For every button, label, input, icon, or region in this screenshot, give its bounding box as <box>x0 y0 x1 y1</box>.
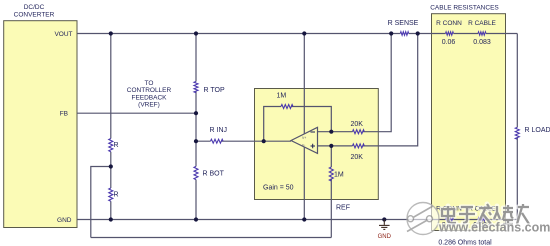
junction VOUT sense before RSENSE <box>389 31 393 35</box>
svg-text:0.286 Ohms total: 0.286 Ohms total <box>438 240 492 246</box>
svg-text:V-: V- <box>302 144 305 148</box>
junction GND-symbol <box>382 217 386 221</box>
svg-text:(VREF): (VREF) <box>138 102 160 109</box>
svg-text:CABLE RESISTANCES: CABLE RESISTANCES <box>430 4 499 11</box>
svg-text:R: R <box>114 192 119 199</box>
op-amp plus input mark <box>311 144 316 148</box>
junction FB node <box>194 111 198 115</box>
resistor 20K top <box>353 130 365 134</box>
svg-text:R CONN: R CONN <box>436 20 462 27</box>
resistor R lower divider <box>109 188 113 201</box>
svg-text:CONVERTER: CONVERTER <box>14 11 55 18</box>
wire REF 1M branch <box>330 146 332 238</box>
svg-text:R: R <box>114 142 119 149</box>
svg-text:R TOP: R TOP <box>204 87 225 94</box>
svg-text:DC/DC: DC/DC <box>24 4 45 11</box>
junction VOUT-supply <box>302 31 306 35</box>
resistor 1M feedback <box>281 105 293 109</box>
wire load branch <box>516 34 518 220</box>
wire feedback node vertical <box>195 34 197 220</box>
svg-text:VOUT: VOUT <box>54 31 72 38</box>
label TO CONTROLLER FEEDBACK (VREF) <box>127 80 172 108</box>
svg-text:0.06: 0.06 <box>442 39 456 46</box>
svg-text:Gain = 50: Gain = 50 <box>263 185 294 192</box>
wire op-amp V+ supply <box>303 34 305 135</box>
svg-text:FB: FB <box>60 111 68 118</box>
junction VOUT sense after RSENSE <box>416 31 420 35</box>
svg-text:GND: GND <box>57 217 72 224</box>
junction divider midpoint <box>109 164 113 168</box>
resistor R TOP <box>194 82 198 93</box>
wire VOUT rail <box>77 33 517 35</box>
wire divider mid jog <box>91 167 111 238</box>
resistor R CABLE top <box>478 32 486 35</box>
DC/DC converter box <box>4 21 77 228</box>
wire divider vertical <box>110 34 112 220</box>
svg-text:R BOT: R BOT <box>203 170 225 177</box>
svg-text:R INJ: R INJ <box>210 127 228 134</box>
wire non-inverting input to sense point <box>318 34 418 146</box>
cable resistances box <box>432 14 506 231</box>
resistor R CABLE bottom <box>478 218 486 221</box>
svg-text:www.elecfans.com: www.elecfans.com <box>438 221 550 235</box>
junction GND-supply <box>302 217 306 221</box>
wire GND rail <box>77 219 517 221</box>
wire R INJ to op-amp output <box>196 140 291 142</box>
junction inverting node <box>329 130 333 134</box>
resistor R LOAD <box>515 127 519 139</box>
svg-text:1M: 1M <box>277 93 287 100</box>
wire feedback 1M loop <box>264 107 332 142</box>
op-amp minus input mark <box>311 131 316 133</box>
svg-text:R SENSE: R SENSE <box>388 20 419 27</box>
junction FB-RINJ <box>194 139 198 143</box>
junction output-feedback <box>262 139 266 143</box>
wire REF return bottom <box>91 237 331 239</box>
resistor 20K bottom <box>353 144 365 148</box>
svg-text:20K: 20K <box>351 154 364 161</box>
watermark logo <box>407 203 439 235</box>
resistor R BOT <box>194 166 198 179</box>
junction GND-divider <box>109 217 113 221</box>
op-amp amplifier box <box>255 89 379 200</box>
junction GND-RBOT <box>194 217 198 221</box>
resistor R CONN bottom <box>446 218 454 221</box>
wire op-amp V- supply <box>303 147 305 220</box>
wire FB line <box>77 112 196 114</box>
svg-text:0.083: 0.083 <box>473 39 491 46</box>
watermark chinese characters <box>442 204 529 224</box>
svg-text:R LOAD: R LOAD <box>525 127 550 134</box>
resistor R SENSE <box>400 32 408 36</box>
junction non-inverting node <box>329 144 333 148</box>
svg-text:R CABLE: R CABLE <box>468 20 496 27</box>
resistor R CONN top <box>446 32 454 35</box>
svg-text:20K: 20K <box>351 121 364 128</box>
svg-text:GND: GND <box>378 234 392 240</box>
svg-text:CONTROLLER: CONTROLLER <box>127 87 172 94</box>
junction VOUT-RTOP <box>194 31 198 35</box>
svg-text:1M: 1M <box>334 172 344 179</box>
svg-text:REF: REF <box>336 205 350 212</box>
svg-text:FEEDBACK: FEEDBACK <box>131 94 167 101</box>
ground symbol <box>379 220 390 230</box>
resistor R upper divider <box>109 139 113 152</box>
op-amp U1 triangle <box>291 127 318 153</box>
svg-text:V+: V+ <box>302 136 306 140</box>
resistor 1M to REF <box>329 167 333 181</box>
resistor R INJ <box>211 139 224 143</box>
wire inverting input to sense point <box>318 34 392 132</box>
junction VOUT-divider <box>109 31 113 35</box>
